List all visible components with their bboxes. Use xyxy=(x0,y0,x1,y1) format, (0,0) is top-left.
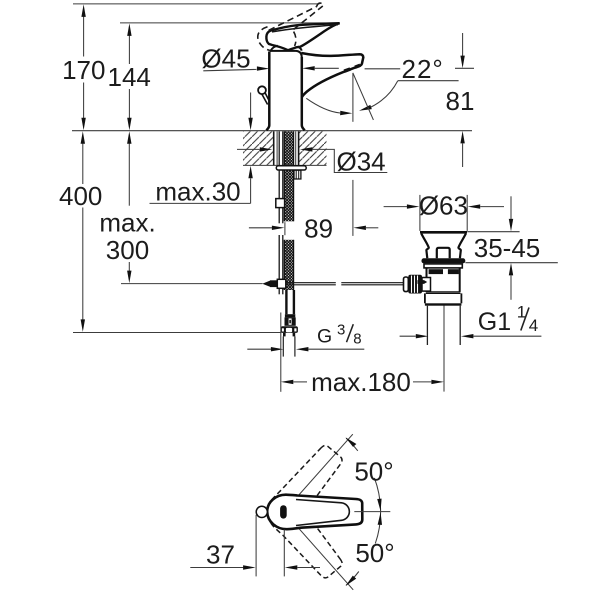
svg-text:400: 400 xyxy=(59,181,102,211)
dashed raised handle xyxy=(258,3,323,51)
svg-text:Ø34: Ø34 xyxy=(337,146,386,176)
spout xyxy=(301,53,363,97)
svg-text:4: 4 xyxy=(529,316,538,335)
dim 35-45 xyxy=(467,231,519,233)
dome left slope xyxy=(271,46,278,51)
dim Ø63 xyxy=(419,195,421,231)
hose lower plain tube xyxy=(285,290,287,314)
svg-text:max.30: max.30 xyxy=(155,176,240,206)
knurled nut on drain left xyxy=(404,277,409,292)
fitting hex hat xyxy=(281,326,298,333)
svg-text:Ø45: Ø45 xyxy=(201,43,250,73)
T-joint of pop-up rod xyxy=(262,281,270,287)
drain lock ring xyxy=(424,264,462,268)
hose end fitting xyxy=(285,314,295,317)
dim 89 xyxy=(284,222,286,235)
svg-text:3: 3 xyxy=(337,321,345,338)
svg-text:8: 8 xyxy=(353,330,361,347)
ref line max300 bottom xyxy=(121,283,263,285)
svg-text:G: G xyxy=(317,326,332,348)
lower body xyxy=(424,293,426,303)
horizontal actuating rod xyxy=(286,282,336,284)
body joint lines xyxy=(426,291,461,293)
ref line 400 bottom xyxy=(73,332,281,334)
lever pin xyxy=(418,280,428,284)
left flow arc arrow xyxy=(306,98,340,113)
dim G1 1/4 xyxy=(400,335,416,337)
mounting washer under deck xyxy=(276,166,306,170)
overflow slots xyxy=(429,269,443,274)
drain body xyxy=(426,268,428,292)
pivot small circle xyxy=(256,506,267,517)
22deg underline + arc arrow xyxy=(398,80,459,82)
fitting neck xyxy=(283,333,286,337)
deck top line xyxy=(72,130,472,132)
50 deg arcs xyxy=(346,438,358,451)
handle solid (plan) xyxy=(267,495,362,530)
pop-up knob on body xyxy=(258,86,266,94)
deck bottom line xyxy=(243,164,327,166)
svg-text:89: 89 xyxy=(304,213,333,243)
deck hatching right xyxy=(299,131,327,165)
svg-text:170: 170 xyxy=(62,55,105,85)
svg-text:37: 37 xyxy=(206,539,235,569)
lever chamfer line xyxy=(272,25,338,32)
dim 400 xyxy=(82,135,84,184)
svg-text:144: 144 xyxy=(108,62,151,92)
dim 144 xyxy=(128,28,130,65)
drain lift knob square xyxy=(437,248,450,258)
G3/8 pipe xyxy=(282,336,284,356)
89 right extension (lower part of vertical) xyxy=(352,180,354,236)
aerator slots xyxy=(344,69,350,71)
dim 81 xyxy=(455,67,474,69)
svg-text:max.: max. xyxy=(99,207,155,237)
svg-text:35-45: 35-45 xyxy=(474,233,541,263)
dim 170 xyxy=(83,8,85,56)
22deg spray lines xyxy=(352,73,354,122)
svg-text:50°: 50° xyxy=(354,456,393,486)
dashed handle rotated down xyxy=(260,488,348,583)
faucet body sides xyxy=(266,52,269,131)
dashed handle rotated up xyxy=(260,441,348,536)
lever handle solid xyxy=(266,23,339,50)
svg-text:22°: 22° xyxy=(402,54,444,84)
svg-text:Ø63: Ø63 xyxy=(419,190,468,220)
ref line top (dashed-handle tip level, 170) xyxy=(73,3,320,5)
dim max.300 xyxy=(128,135,130,205)
label G 3/8 xyxy=(247,348,271,350)
drain taper body xyxy=(421,234,428,259)
dim Ø45 right arrow + 22deg leader xyxy=(302,66,315,70)
dim 37 xyxy=(255,515,257,577)
handle inner stadium xyxy=(296,500,349,526)
shank tube walls in deck xyxy=(273,131,275,165)
dim Ø34 xyxy=(237,148,260,150)
dim max.30 xyxy=(250,93,252,119)
centerline right xyxy=(354,511,390,513)
svg-text:81: 81 xyxy=(446,86,475,116)
50 deg swing lines xyxy=(284,434,353,512)
pull rod vertical xyxy=(278,131,280,223)
handle pill hole xyxy=(280,505,287,518)
ref line handle-down tip level (144) xyxy=(120,22,340,24)
mounting nut tab xyxy=(294,170,301,179)
dome right slope xyxy=(298,47,302,51)
svg-text:300: 300 xyxy=(106,235,149,265)
svg-text:50°: 50° xyxy=(355,538,394,568)
body top + corner xyxy=(270,51,302,57)
drain top plate xyxy=(420,231,467,234)
braided supply hose column xyxy=(284,131,293,290)
drain flange (dark) xyxy=(422,258,466,263)
rod adjuster block xyxy=(276,199,285,208)
deck hatching left xyxy=(243,131,273,165)
svg-text:G1: G1 xyxy=(478,308,511,336)
dim max.180 xyxy=(280,313,282,392)
svg-text:max.180: max.180 xyxy=(311,367,411,397)
arc arrowheads xyxy=(346,437,357,447)
tailpipe xyxy=(426,306,428,345)
